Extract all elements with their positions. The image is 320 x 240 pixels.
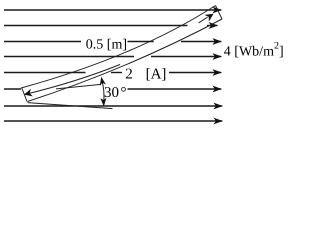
dimension top short shaft — [199, 17, 208, 23]
svg-text:30°: 30° — [104, 85, 127, 101]
field line B8 — [4, 120, 222, 122]
conductor rod upper outline — [21, 6, 216, 89]
field line B4 — [4, 56, 221, 58]
angle arc 30 degrees double arrow — [102, 80, 104, 103]
angle reference line — [28, 103, 113, 109]
field line B5 — [4, 72, 221, 74]
field line B2 — [4, 25, 218, 27]
angle arm segment from rod to arc — [56, 84, 101, 89]
conductor rod lower outline — [28, 19, 223, 102]
dimension arrowhead top-right — [205, 14, 214, 22]
svg-text:2[A]: 2[A] — [125, 66, 166, 82]
length dimension line 0.5 m (double arrow along rod) — [24, 65, 120, 95]
field line B3 — [4, 41, 221, 43]
field line B1 — [4, 9, 221, 11]
angle arc arrowhead top — [100, 77, 106, 86]
svg-text:4 [Wb/m2]: 4 [Wb/m2] — [224, 41, 284, 60]
field line B7 — [4, 105, 222, 107]
angle arc arrowhead bottom — [100, 98, 106, 107]
svg-text:0.5 [m]: 0.5 [m] — [86, 38, 127, 53]
dimension arrowhead bottom-left — [24, 89, 33, 97]
field line B6 — [4, 88, 221, 90]
rod top end cap — [216, 6, 223, 20]
rod bottom end cap — [22, 88, 27, 102]
